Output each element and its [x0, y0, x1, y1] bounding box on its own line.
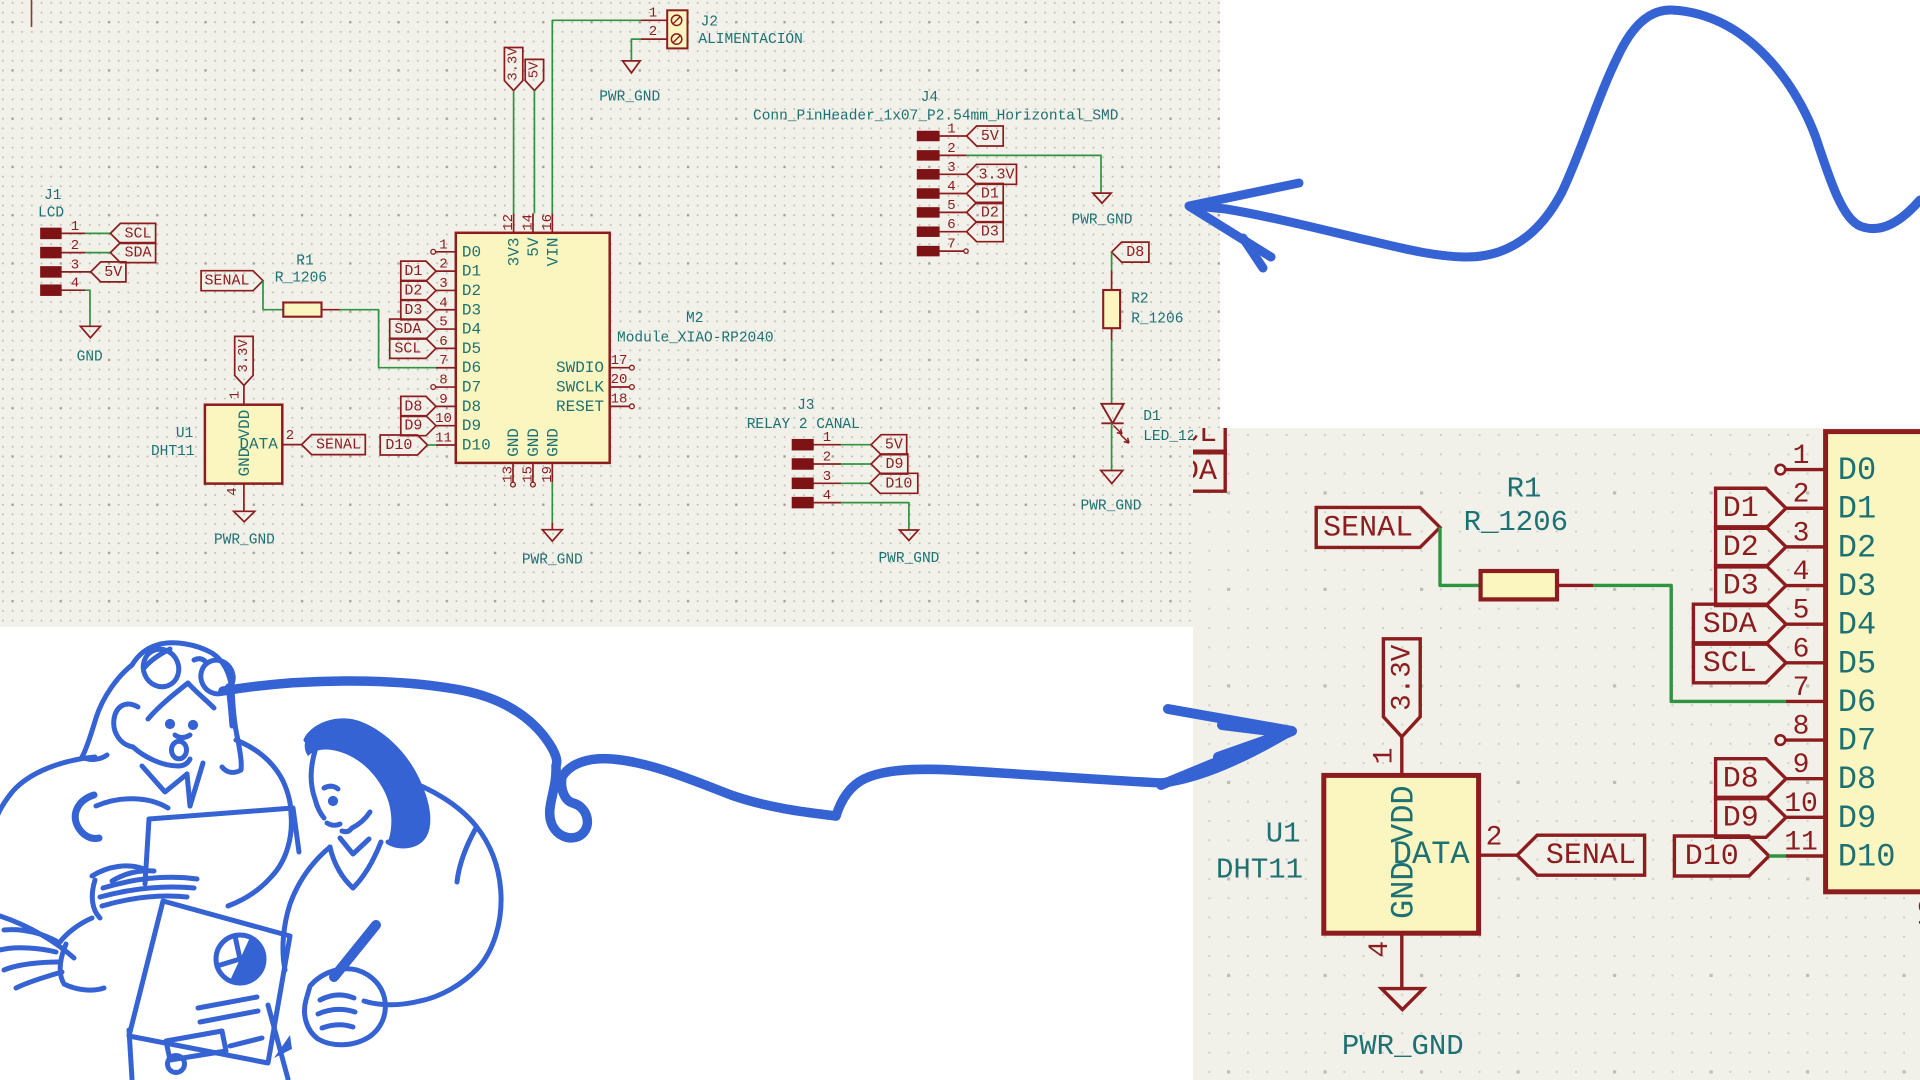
module M2 pin number 7 — [1793, 673, 1810, 704]
label SCL at M2 — [390, 338, 436, 358]
wire R2 to LED D1 — [1111, 340, 1113, 404]
svg-text:D1: D1 — [1723, 492, 1759, 526]
wire J4 pin2 to PWR_GND — [967, 155, 1101, 193]
svg-text:D10: D10 — [385, 437, 412, 454]
connector J3 pad pin 1 — [792, 439, 813, 450]
svg-text:R1: R1 — [1507, 473, 1542, 506]
module M2 pin name D0 — [462, 243, 481, 261]
connector J4 pin 7 no-connect circle — [964, 249, 968, 253]
module M2 pin name D6 — [1838, 684, 1876, 721]
svg-text:9: 9 — [439, 392, 447, 408]
svg-text:13: 13 — [1916, 898, 1920, 932]
power PWR_GND symbol at U1 — [1381, 989, 1423, 1010]
resistor R1 body — [1481, 571, 1557, 599]
sensor U1 pin 4 stub — [243, 484, 245, 504]
module M2 pin name GND 1 — [505, 428, 523, 457]
label D2 at J4 — [967, 202, 1004, 222]
svg-text:D3: D3 — [404, 302, 422, 319]
svg-text:RESET: RESET — [556, 398, 604, 416]
module M2 pin name D3 — [1838, 568, 1876, 605]
module M2 pin number 12 — [1917, 394, 1920, 428]
svg-text:4: 4 — [439, 295, 447, 311]
power PWR_GND symbol at LED D1 — [1101, 471, 1123, 484]
sensor U1 pin number 4 — [225, 487, 241, 495]
connector J1 pad pin 3 — [41, 267, 62, 278]
module M2 pin number 10 — [435, 411, 452, 427]
connector J1 reference — [1002, 342, 1037, 375]
module M2 top pin 16 stub — [551, 213, 553, 232]
svg-text:D3: D3 — [1723, 570, 1759, 604]
svg-text:3.3V: 3.3V — [979, 166, 1015, 183]
woman 1 left hand fingers bottom left — [4, 930, 58, 942]
module M2 pin name D7 — [1838, 723, 1876, 760]
svg-text:1: 1 — [823, 430, 831, 446]
wire D10 label to M2 pin11 — [1769, 855, 1786, 857]
sensor U1 pin name DATA — [239, 435, 278, 453]
svg-text:4: 4 — [1793, 557, 1810, 588]
label SENAL at U1 — [302, 435, 366, 455]
module M2 pin name SWDIO — [556, 359, 604, 377]
LED D1 reference — [1143, 409, 1160, 425]
module M2 pin number 4 — [1793, 557, 1810, 588]
module M2 pin name D8 — [462, 398, 481, 416]
label SENAL at R1 — [1316, 507, 1440, 547]
label D8 at M2 — [401, 396, 436, 416]
connector J1 pin number 4 — [71, 276, 79, 292]
writing sheet — [129, 1030, 132, 1079]
connector J4 pad pin 6 — [917, 227, 939, 237]
sensor U1 pin name GND — [1385, 861, 1422, 919]
svg-text:11: 11 — [1784, 828, 1818, 859]
wire J1 pin1 to SCL — [1084, 432, 1135, 434]
sheet origin tick — [31, 0, 33, 27]
svg-text:8: 8 — [439, 373, 447, 389]
svg-text:18: 18 — [611, 392, 628, 408]
svg-text:D9: D9 — [885, 456, 903, 473]
label D10 at M2 — [380, 435, 427, 455]
svg-text:J2: J2 — [701, 15, 718, 31]
ground GND text at J1 — [77, 350, 103, 366]
module M2 bottom pin 15 stub — [532, 463, 534, 482]
connector J4 pin 3 lead — [939, 173, 967, 175]
label 5V at J3 — [871, 435, 907, 455]
connector J4 pin 4 lead — [939, 193, 967, 195]
power PWR_GND symbol at U1 — [234, 511, 255, 522]
label 3.3V above U1 — [1383, 639, 1420, 737]
connector J3 pad pin 4 — [792, 497, 813, 508]
label D9 at J3 — [871, 454, 908, 474]
svg-text:D9: D9 — [404, 418, 422, 435]
svg-text:12: 12 — [501, 214, 517, 231]
module M2 pin number 19 — [540, 466, 556, 483]
svg-text:D1: D1 — [404, 263, 422, 280]
svg-text:1: 1 — [71, 219, 79, 235]
woman 2 collar and lapels — [340, 838, 369, 854]
svg-text:D2: D2 — [1838, 529, 1876, 566]
woman 2 writing hand — [305, 969, 386, 1045]
svg-text:GND: GND — [505, 428, 523, 457]
woman 1 hand holding paper — [103, 877, 197, 888]
module M2 pin name 5V — [525, 237, 543, 257]
wire J2 pin2 to PWR_GND — [631, 39, 640, 61]
module M2 left pin 2 stub — [1786, 507, 1826, 509]
label 5V at J1 — [1095, 490, 1165, 530]
sensor U1 pin 4 stub — [1401, 933, 1403, 974]
connector J4 pad pin 7 — [917, 246, 939, 256]
connector J1 pad pin 4 — [995, 536, 1036, 557]
connector J4 pin number 7 — [947, 237, 955, 253]
wire J1 pin4 to GND — [1084, 546, 1094, 618]
connector J2 screw 2 — [671, 34, 681, 44]
module M2 left pin 1 stub — [1786, 469, 1826, 471]
svg-text:Conn_PinHeader_1x07_P2.54mm_Ho: Conn_PinHeader_1x07_P2.54mm_Horizontal_S… — [753, 109, 1118, 125]
power PWR_GND symbol at J2 — [623, 61, 641, 73]
svg-text:5V: 5V — [527, 61, 542, 78]
module M2 reference — [686, 311, 703, 327]
resistor R1 reference — [1507, 473, 1542, 506]
module M2 pin number 17 — [611, 353, 628, 369]
svg-text:D9: D9 — [1723, 801, 1759, 835]
module M2 top pin 14 stub — [532, 213, 534, 232]
svg-text:D1: D1 — [1143, 409, 1160, 425]
label SDA at M2 — [1693, 604, 1786, 644]
connector J4 pin number 1 — [947, 122, 955, 138]
sensor U1 value DHT11 — [151, 444, 195, 460]
svg-text:3: 3 — [439, 276, 447, 292]
label SCL at M2 — [1693, 643, 1786, 683]
connector J3 pin number 3 — [823, 469, 831, 485]
connector J4 pad pin 1 — [917, 131, 939, 141]
svg-text:6: 6 — [439, 334, 447, 350]
module M2 pin name D5 — [1838, 645, 1876, 682]
connector J2 body — [667, 10, 687, 48]
module M2 right pin 18 stub — [610, 405, 630, 407]
module M2 pin name D6 — [462, 359, 481, 377]
connector J1 pad pin 2 — [41, 247, 62, 258]
svg-text:2: 2 — [71, 238, 79, 254]
connector J1 pin 1 lead — [1036, 432, 1084, 434]
label D1 at J4 — [967, 184, 1004, 204]
svg-text:2: 2 — [286, 428, 294, 444]
module M2 left pin 8 stub — [436, 386, 456, 388]
module M2 left pin 3 stub — [1786, 546, 1826, 548]
svg-text:D5: D5 — [462, 340, 481, 358]
module M2 bottom pin 13 stub — [512, 463, 514, 482]
svg-text:3: 3 — [823, 469, 831, 485]
module M2 pin name D1 — [1838, 491, 1876, 528]
module M2 pin 8 no-connect circle — [431, 385, 436, 390]
svg-text:J4: J4 — [921, 90, 938, 106]
module M2 pin name D5 — [462, 340, 481, 358]
blue squiggle arrow middle pointing right — [223, 681, 1292, 838]
connector J3 pad pin 3 — [792, 478, 813, 489]
svg-text:2: 2 — [1793, 480, 1810, 511]
resistor R2 body — [1103, 290, 1120, 328]
svg-text:3: 3 — [947, 160, 955, 176]
connector J3 reference — [797, 398, 814, 414]
svg-text:3.3V: 3.3V — [507, 47, 522, 81]
module M2 right pin 20 stub — [610, 386, 630, 388]
svg-text:LCD: LCD — [38, 206, 64, 222]
svg-text:SWDIO: SWDIO — [556, 359, 604, 377]
svg-text:Module_XIAO-RP2040: Module_XIAO-RP2040 — [617, 331, 774, 347]
module M2 pin name D10 — [462, 437, 491, 455]
module M2 pin number 7 — [439, 353, 447, 369]
module M2 left pin 10 stub — [436, 425, 456, 427]
label D3 at M2 — [401, 300, 436, 320]
module M2 pin number 3 — [439, 276, 447, 292]
module M2 pin 1 no-connect circle — [1776, 465, 1786, 475]
zoom overlay panel — [1193, 428, 1920, 1080]
wire J3 pin2 to D9 — [841, 463, 871, 465]
woman 1 hair — [132, 643, 241, 773]
svg-text:VDD: VDD — [236, 410, 254, 439]
svg-text:SENAL: SENAL — [1546, 839, 1636, 873]
svg-text:SDA: SDA — [124, 245, 151, 262]
module M2 left pin 8 stub — [1786, 739, 1826, 741]
svg-text:DHT11: DHT11 — [151, 444, 195, 460]
power PWR_GND symbol at M2 — [542, 530, 562, 542]
svg-text:5: 5 — [1793, 596, 1810, 627]
module M2 left pin 11 stub — [1786, 855, 1826, 857]
module M2 pin name D4 — [1838, 607, 1876, 644]
module M2 pin number 2 — [439, 257, 447, 273]
connector J1 pin number 1 — [1056, 404, 1073, 435]
svg-text:6: 6 — [1793, 634, 1810, 665]
label 5V at J1 — [91, 262, 126, 282]
woman 2 face — [311, 751, 324, 818]
connector J1 pin number 2 — [71, 238, 79, 254]
connector J2 pin 2 lead — [641, 38, 668, 40]
resistor R1 right lead — [1557, 584, 1593, 586]
power PWR_GND text at LED D1 — [1081, 499, 1142, 515]
label D3 at M2 — [1716, 566, 1786, 606]
module M2 pin name D2 — [1838, 529, 1876, 566]
connector J1 pin 4 lead — [61, 289, 85, 291]
svg-text:D7: D7 — [1838, 723, 1876, 760]
svg-text:R1: R1 — [296, 254, 313, 270]
module M2 pin number 9 — [1793, 750, 1810, 781]
wire M2 pin19 to PWR_GND — [551, 482, 553, 529]
power PWR_GND text at J2 — [599, 90, 660, 106]
module M2 left pin 2 stub — [436, 270, 456, 272]
svg-text:R_1206: R_1206 — [275, 270, 327, 286]
wire U1 pin4 to PWR_GND — [1401, 974, 1403, 989]
connector J1 pin number 2 — [1056, 443, 1073, 474]
label D2 at M2 — [1716, 527, 1786, 567]
connector J1 value LCD — [990, 377, 1042, 410]
svg-text:GND: GND — [544, 428, 562, 457]
module M2 pin number 8 — [1793, 712, 1810, 743]
svg-text:M2: M2 — [686, 311, 703, 327]
woman 1 arm across — [96, 799, 168, 808]
sensor U1 reference — [176, 426, 193, 442]
svg-text:2: 2 — [1486, 823, 1503, 854]
svg-text:1: 1 — [649, 5, 657, 21]
svg-text:10: 10 — [1784, 789, 1818, 820]
label 5V above M2 — [525, 59, 543, 90]
label SENAL at R1 — [201, 271, 263, 291]
svg-text:DHT11: DHT11 — [1216, 854, 1303, 887]
connector J1 pin 1 lead — [61, 232, 85, 234]
label 3.3V at J4 — [967, 164, 1017, 184]
sensor U1 pin 2 stub — [1479, 854, 1518, 856]
module M2 pin name D3 — [462, 301, 481, 319]
resistor R1 value R_1206 — [1464, 506, 1568, 539]
woman 1 face — [114, 704, 138, 747]
svg-text:D1: D1 — [462, 263, 481, 281]
connector J3 pad pin 2 — [792, 459, 813, 470]
wire 5V to M2 pin14 — [533, 91, 535, 214]
svg-text:17: 17 — [611, 353, 628, 369]
connector J1 pin 2 lead — [1036, 470, 1084, 472]
module M2 value Module_XIAO-RP2040 — [617, 331, 774, 347]
label D1 at M2 — [1716, 488, 1786, 528]
connector J2 pin number 1 — [649, 5, 657, 21]
svg-text:PWR_GND: PWR_GND — [214, 532, 275, 548]
module M2 pin name D2 — [462, 282, 481, 300]
pen — [334, 925, 376, 977]
svg-text:PWR_GND: PWR_GND — [1081, 499, 1142, 515]
svg-text:GND: GND — [236, 448, 254, 477]
power PWR_GND text at J3 — [878, 551, 939, 567]
svg-text:R_1206: R_1206 — [1131, 312, 1183, 328]
module M2 pin name SWCLK — [556, 379, 604, 397]
svg-text:VIN: VIN — [544, 238, 562, 267]
connector J4 value Conn_PinHeader — [753, 109, 1118, 125]
label D3 at J4 — [967, 222, 1004, 242]
svg-text:R2: R2 — [1131, 292, 1148, 308]
resistor R1 value R_1206 — [275, 270, 327, 286]
svg-text:D10: D10 — [885, 475, 912, 492]
label D9 at M2 — [1716, 797, 1786, 837]
sensor U1 pin number 1 — [1370, 748, 1401, 765]
ground GND symbol at J1 — [80, 326, 100, 338]
svg-text:D4: D4 — [462, 321, 481, 339]
label D10 at M2 — [1674, 836, 1769, 876]
module M2 pin number 8 — [439, 373, 447, 389]
power PWR_GND text at U1 — [1342, 1030, 1464, 1063]
svg-text:D8: D8 — [404, 398, 422, 415]
module M2 pin number 11 — [435, 431, 452, 447]
label D8 at R2 — [1112, 242, 1149, 262]
connector J1 pin 3 lead — [1036, 509, 1095, 511]
module M2 left pin 9 stub — [1786, 778, 1826, 780]
svg-text:D1: D1 — [1838, 491, 1876, 528]
svg-text:D7: D7 — [462, 379, 481, 397]
svg-text:16: 16 — [540, 214, 556, 231]
connector J2 pin 1 lead — [641, 19, 668, 21]
connector J1 reference — [44, 188, 61, 204]
resistor R1 body — [283, 303, 321, 317]
module M2 left pin 6 stub — [436, 347, 456, 349]
sensor U1 pin 2 stub — [282, 444, 301, 446]
label 3.3V above M2 — [504, 47, 522, 91]
svg-text:GND: GND — [1385, 861, 1422, 919]
svg-text:3.3V: 3.3V — [1387, 644, 1418, 711]
module M2 pin number 6 — [439, 334, 447, 350]
svg-text:SCL: SCL — [1193, 428, 1217, 451]
svg-text:R_1206: R_1206 — [1464, 506, 1568, 539]
svg-text:SCL: SCL — [124, 225, 151, 242]
wire R1 to M2 pin7 — [1593, 585, 1786, 701]
svg-text:5V: 5V — [525, 237, 543, 257]
svg-text:13: 13 — [501, 466, 517, 483]
connector J3 pin 3 lead — [813, 482, 841, 484]
module M2 pin number 16 — [540, 214, 556, 231]
svg-text:D6: D6 — [1838, 684, 1876, 721]
connector J4 pad pin 3 — [917, 170, 939, 180]
ground GND symbol at J1 — [1075, 619, 1115, 642]
svg-text:SENAL: SENAL — [1323, 511, 1413, 545]
module M2 pin number 12 — [501, 214, 517, 231]
svg-text:3: 3 — [1793, 518, 1810, 549]
svg-text:D2: D2 — [1723, 531, 1759, 565]
label SDA at J1 — [110, 243, 155, 263]
svg-text:D10: D10 — [1838, 839, 1896, 876]
connector J2 screw 1 — [671, 15, 681, 25]
svg-text:5V: 5V — [885, 437, 903, 454]
connector J1 pad pin 3 — [995, 499, 1036, 520]
svg-text:PWR_GND: PWR_GND — [1342, 1030, 1464, 1063]
paper 1 held — [149, 808, 299, 852]
module M2 body — [456, 233, 610, 463]
svg-text:U1: U1 — [1266, 818, 1301, 851]
svg-text:D2: D2 — [981, 204, 999, 221]
wire SENAL to R1 — [1440, 527, 1481, 585]
module M2 left pin 1 stub — [436, 251, 456, 253]
svg-text:7: 7 — [1793, 673, 1810, 704]
svg-text:1: 1 — [228, 391, 244, 399]
module M2 pin number 3 — [1793, 518, 1810, 549]
connector J3 pin number 1 — [823, 430, 831, 446]
module M2 pin 13 no-connect circle — [511, 482, 516, 487]
ground GND text at J1 — [1067, 665, 1119, 698]
svg-text:4: 4 — [71, 276, 79, 292]
module M2 pin number 2 — [1793, 480, 1810, 511]
module M2 left pin 7 stub — [1786, 700, 1826, 702]
sensor U1 pin name VDD — [236, 410, 254, 439]
svg-text:3V3: 3V3 — [506, 238, 524, 267]
connector J3 pin 4 lead — [813, 502, 841, 504]
sensor U1 pin number 4 — [1365, 941, 1396, 958]
connector J3 value RELAY 2 CANAL — [747, 417, 860, 433]
connector J4 pin 6 lead — [939, 231, 967, 233]
module M2 right pin 17 stub — [610, 367, 630, 369]
connector J1 pin 2 lead — [61, 252, 85, 254]
svg-text:VDD: VDD — [1385, 785, 1422, 843]
module M2 pin 17 no-connect circle — [630, 365, 635, 370]
module M2 top pin 12 stub — [513, 213, 515, 232]
svg-text:SDA: SDA — [394, 321, 421, 338]
label SCL at J1 — [110, 223, 155, 243]
module M2 pin number 13 — [501, 466, 517, 483]
main schematic sheet — [0, 0, 1220, 627]
module M2 pin number 10 — [1784, 789, 1818, 820]
svg-text:D4: D4 — [1838, 607, 1876, 644]
svg-text:4: 4 — [823, 488, 831, 504]
svg-text:5V: 5V — [104, 264, 122, 281]
power PWR_GND text at U1 — [214, 532, 275, 548]
connector J1 value LCD — [38, 206, 64, 222]
svg-text:5V: 5V — [981, 128, 999, 145]
resistor R2 reference — [1131, 292, 1148, 308]
svg-text:D8: D8 — [1838, 761, 1876, 798]
svg-text:4: 4 — [947, 179, 955, 195]
connector J4 pin number 2 — [947, 141, 955, 157]
module M2 left pin 7 stub — [436, 367, 456, 369]
connector J4 pin number 3 — [947, 160, 955, 176]
